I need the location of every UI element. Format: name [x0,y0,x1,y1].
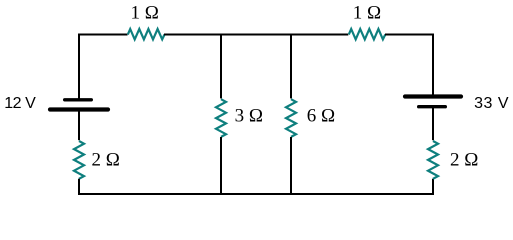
battery V1 12V positive (long) plate [50,107,108,111]
svg-text:1 Ω: 1 Ω [131,3,159,24]
svg-text:6 Ω: 6 Ω [307,105,335,126]
wire: top-right segment with right corner [385,35,433,97]
wire: top middle segment [164,34,348,36]
resistor R5 2-ohm left zigzag [74,141,84,179]
svg-text:2 Ω: 2 Ω [450,150,478,171]
battery V2 33V positive (long) plate [405,94,461,98]
wire: middle branch 1 lower [220,137,222,195]
svg-text:12 V: 12 V [4,95,36,112]
battery V1 12V negative (short) plate [65,98,92,101]
svg-text:1 Ω: 1 Ω [353,3,381,24]
wire: top-left segment with left corner [79,35,128,101]
resistor R6 2-ohm right zigzag [428,141,438,179]
wire: middle branch 2 upper [290,34,292,99]
wire: bottom middle segment [221,193,291,195]
svg-text:33 V: 33 V [474,95,509,112]
resistor R1 1-ohm top-left zigzag [128,29,165,39]
resistor R4 6-ohm zigzag [286,99,296,137]
wire: bottom-right segment with corner [291,179,433,194]
resistor R3 3-ohm zigzag [216,99,226,137]
resistor R2 1-ohm top-right zigzag [349,29,386,39]
svg-text:2 Ω: 2 Ω [92,150,120,171]
wire: middle branch 2 lower [290,137,292,195]
battery V2 33V negative (short) plate [419,105,446,108]
wire: left between battery and 2-ohm resistor [78,110,80,141]
wire: right between battery and 2-ohm resistor [432,107,434,141]
svg-text:3 Ω: 3 Ω [235,105,263,126]
wire: middle branch 1 upper [220,34,222,99]
wire: bottom-left corner segment [79,179,221,194]
